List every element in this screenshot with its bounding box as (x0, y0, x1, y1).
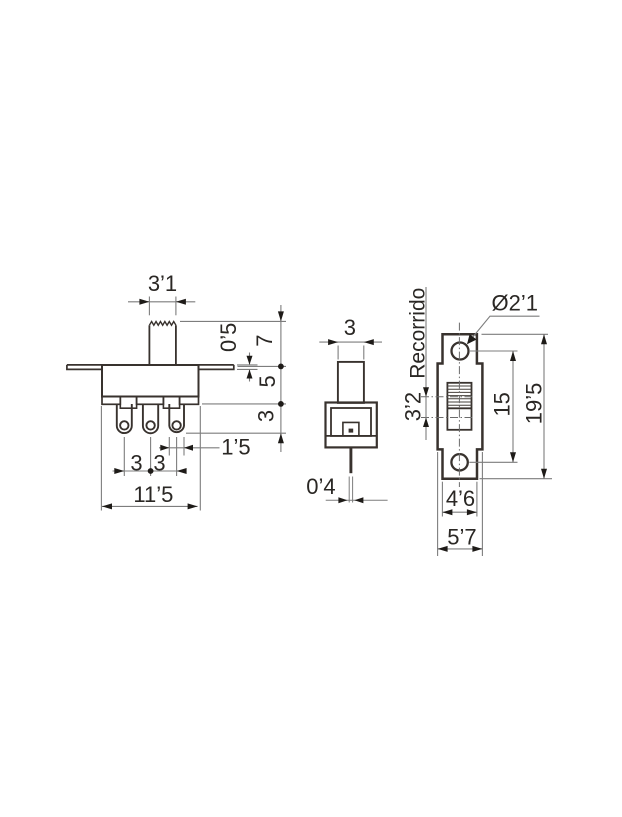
extension line lip bottom to right dim (202, 403, 286, 405)
dimension 3'2 arrows (423, 387, 429, 427)
extension line plate bottom (480, 478, 553, 480)
extension line flange level to right dim (238, 365, 287, 367)
svg-text:3’1: 3’1 (148, 271, 177, 296)
dimension 11'5 lines (101, 406, 200, 511)
dimension 19'5 arrows (541, 334, 547, 478)
body bottom lip segment center (137, 397, 164, 405)
slider knob bottom edge (447, 407, 471, 409)
travel position centerline lower (421, 417, 475, 419)
notch between lips right (163, 397, 179, 408)
svg-text:7: 7 (252, 334, 277, 346)
svg-text:3: 3 (130, 451, 142, 476)
dimension 4'6 extension lines (442, 482, 477, 517)
dimension 5'7 extension lines (438, 452, 483, 556)
dimension 1'5 arrows (160, 445, 193, 451)
pin 1 (front view) (117, 404, 132, 433)
Recorrido leader / dimension 3'2 line (425, 287, 427, 440)
right chained dimension line 7/5/3 (280, 305, 282, 452)
actuator knob (side view) (338, 362, 364, 403)
SIDE VIEW GROUP (306, 315, 387, 503)
dimension 11'5 arrows (102, 503, 198, 509)
pin 2 hole (146, 421, 154, 429)
vertical centerline (top view) (458, 323, 460, 487)
dimension 0'5 ticks at flange (237, 353, 258, 382)
travel position centerline upper (421, 396, 475, 398)
pin cross-section dot (side view) (349, 429, 354, 433)
body bottom plate line (side view) (326, 435, 377, 437)
svg-text:15: 15 (490, 392, 515, 416)
Ø2'1 leader line (468, 316, 540, 343)
pin 1 hole (120, 421, 128, 429)
svg-text:11’5: 11’5 (133, 482, 173, 507)
switch body (side view) (326, 403, 377, 448)
right dim arrows and dots (278, 311, 284, 443)
pin 2 (front view) (143, 404, 158, 433)
dimension 15 line (512, 351, 514, 462)
extension line bottom hole center (469, 461, 517, 463)
pin 3 hole (172, 421, 180, 429)
dimension 3 arrows (side view) (328, 339, 374, 345)
extension line knob top to right dim (180, 320, 286, 322)
dimension 3 3 lines (113, 437, 187, 476)
pin (side view) (349, 447, 352, 473)
svg-text:0’4: 0’4 (306, 474, 335, 499)
body bottom lip segment right (180, 397, 199, 405)
top mounting hole (452, 343, 469, 360)
body inner outline (side view) (331, 408, 371, 436)
slider knob hatch (top view) (447, 386, 471, 405)
dimension 3 3 arrows and dot (114, 468, 186, 474)
dimension 5'7 arrows (438, 546, 483, 552)
mounting plate outline (top view) (438, 334, 483, 478)
bottom mounting hole (451, 454, 467, 470)
dimension 0'4 arrows (338, 497, 363, 503)
dimension 3'1 arrows (139, 299, 186, 305)
pin 3 (front view) (169, 404, 184, 432)
svg-text:19’5: 19’5 (521, 383, 546, 425)
Ø2'1 leader arrow (467, 334, 477, 344)
extension line top hole center (470, 350, 518, 352)
svg-text:3’2: 3’2 (400, 392, 425, 421)
body bottom lip segment left (102, 397, 120, 405)
svg-text:0’5: 0’5 (216, 323, 241, 352)
svg-text:3: 3 (153, 451, 165, 476)
TOP VIEW GROUP (400, 287, 552, 556)
extension line pin bottom to right dim (186, 432, 286, 434)
extension line plate top (482, 333, 549, 335)
dimension 0'4 extension lines (326, 477, 388, 503)
slider slot (top view) (447, 383, 471, 430)
svg-text:1’5: 1’5 (221, 435, 250, 460)
svg-text:4’6: 4’6 (446, 486, 475, 511)
svg-text:3: 3 (344, 315, 356, 340)
dimension 1'5 lines (159, 437, 220, 456)
switch body (front view) (102, 365, 199, 397)
notch between lips left (120, 397, 136, 408)
dimension 3'1 lines (128, 297, 195, 316)
dimension 0'5 arrows (247, 356, 253, 379)
dimension 3 lines (side view) (319, 342, 382, 359)
svg-text:3: 3 (253, 410, 278, 422)
svg-text:5’7: 5’7 (447, 525, 476, 550)
dimension 15 arrows (510, 351, 516, 462)
dimension 19'5 line (543, 334, 545, 478)
svg-text:5: 5 (255, 375, 280, 387)
svg-text:Ø2’1: Ø2’1 (492, 291, 538, 316)
pin holder (side view) (343, 422, 359, 436)
FRONT VIEW GROUP (67, 271, 286, 511)
dimension 4'6 arrows (442, 509, 477, 515)
actuator knob (front view) with break zigzag (149, 322, 176, 366)
mounting flange (front view) (67, 365, 234, 370)
